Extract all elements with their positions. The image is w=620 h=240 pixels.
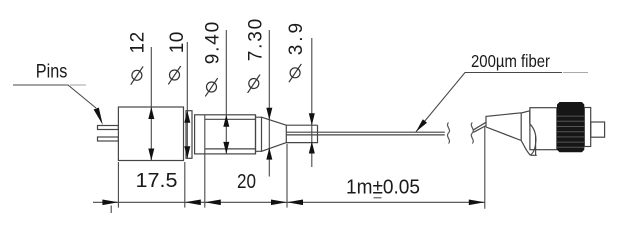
arrowhead Ø10 top	[184, 111, 190, 123]
break squiggle 1	[447, 123, 449, 144]
extension line boot	[484, 127, 486, 209]
arrowhead fiber leader	[416, 119, 427, 132]
arrowhead 1m right	[469, 200, 485, 206]
ferrule	[591, 122, 605, 137]
label Ø7.30 phi symbol	[248, 75, 260, 93]
extension line body left	[117, 162, 119, 208]
arrowhead 1m left	[287, 200, 303, 206]
inner bore line bottom	[205, 148, 256, 150]
label Ø3.9 phi symbol	[289, 64, 301, 82]
label Ø10 phi symbol	[168, 66, 180, 84]
small tick below line	[110, 206, 112, 214]
body (TO-can package)	[118, 107, 183, 161]
nose tube Ø3.9	[286, 125, 317, 142]
svg-text:12: 12	[128, 31, 149, 53]
inner bore line top	[205, 118, 256, 120]
cone	[262, 117, 287, 151]
fiber double line	[286, 132, 445, 135]
svg-text:1m±0.05: 1m±0.05	[346, 175, 420, 198]
pin 2	[98, 137, 119, 141]
connector body	[530, 108, 557, 150]
arrowhead Ø9.40 top	[223, 115, 229, 127]
dim line Ø12	[150, 47, 152, 161]
svg-text:3.9: 3.9	[286, 20, 307, 55]
cylinder Ø9.40	[195, 115, 256, 154]
arrowhead Ø7.30 top	[266, 108, 272, 120]
arrowhead Ø3.9 bottom	[309, 142, 315, 154]
arrowhead Ø12 top	[148, 107, 154, 119]
label Ø12 phi symbol	[131, 66, 143, 84]
nut groove lines	[557, 115, 584, 117]
extension line body right	[184, 162, 186, 208]
arrowhead Ø3.9 top	[309, 113, 315, 125]
arrowhead Ø7.30 bottom	[266, 148, 272, 160]
step cylinder	[256, 115, 262, 154]
ring collar	[186, 111, 192, 159]
pins leader faint dash	[70, 84, 86, 86]
arrowhead 20 left	[205, 200, 221, 206]
fiber stub into boot	[474, 122, 487, 132]
svg-text:7.30: 7.30	[245, 17, 266, 61]
dim line Ø9.40	[225, 30, 227, 154]
pins leader line	[13, 85, 96, 108]
arrowhead 17.5 left	[102, 200, 118, 206]
svg-text:10: 10	[167, 31, 188, 53]
extension line tube	[286, 144, 288, 208]
extension line at 20 start	[204, 115, 206, 208]
dim line Ø10	[186, 42, 188, 158]
arrowhead Ø9.40 bottom	[223, 142, 229, 154]
flange	[584, 108, 590, 147]
dim line Ø7.30	[268, 30, 270, 177]
svg-text:9.40: 9.40	[203, 20, 224, 64]
arrowhead 20 right	[271, 200, 287, 206]
connector boot cone	[486, 113, 521, 141]
pin 1	[98, 126, 119, 130]
plus-minus underline	[374, 197, 382, 199]
svg-text:Pins: Pins	[36, 61, 68, 82]
fiber leader line	[416, 73, 562, 132]
knurled nut (black)	[557, 102, 584, 152]
arrowhead Ø12 bottom	[148, 149, 154, 161]
arrowhead 17.5 right	[185, 200, 201, 206]
connector bell	[521, 111, 537, 156]
svg-text:17.5: 17.5	[136, 169, 178, 192]
label Ø9.40 phi symbol	[205, 78, 217, 96]
svg-text:20: 20	[237, 170, 256, 193]
fiber leader faint tail	[563, 72, 588, 74]
break squiggle 2	[471, 123, 473, 144]
arrowhead pins leader	[94, 108, 103, 126]
bottom dimension line	[93, 201, 485, 203]
dim line Ø3.9	[311, 38, 313, 167]
svg-text:200µm fiber: 200µm fiber	[471, 51, 550, 71]
arrowhead Ø10 bottom	[184, 146, 190, 158]
